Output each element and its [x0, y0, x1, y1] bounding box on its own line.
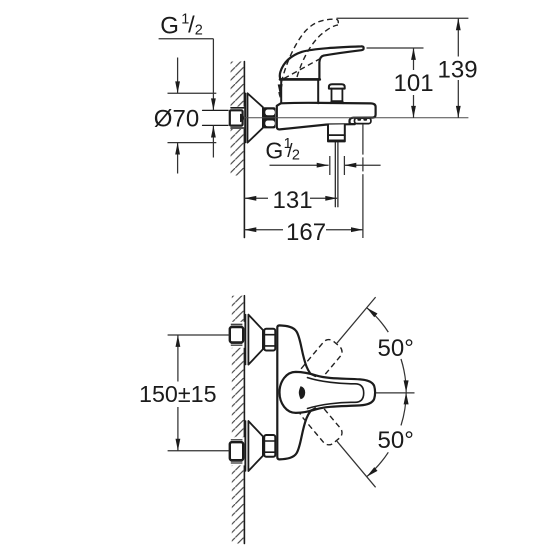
- cartridge skirt below lever: [281, 80, 318, 103]
- bottom union nut (front): [264, 435, 275, 457]
- svg-text:G: G: [265, 137, 283, 163]
- faucet body (front): [277, 325, 315, 459]
- union nut (top view): [263, 107, 275, 128]
- 150±15 dimension: [168, 334, 230, 336]
- wall surface line (bottom view): [243, 296, 245, 544]
- escutcheon (top view): [245, 93, 247, 142]
- centerline: [245, 117, 469, 119]
- svg-text:Ø70: Ø70: [154, 105, 199, 132]
- top union nut (front): [264, 329, 275, 351]
- rotation arrowhead: [278, 84, 283, 96]
- dashed ghost handle upper (rotated 50°): [297, 337, 345, 388]
- top wall nipple (front): [229, 322, 245, 348]
- svg-text:50°: 50°: [378, 427, 414, 454]
- wall hatching (bottom view): [232, 296, 245, 544]
- wall surface line (top view): [243, 62, 245, 238]
- bottom escutcheon (front): [245, 421, 247, 471]
- svg-text:167: 167: [286, 219, 326, 246]
- bottom wall nipple (front): [229, 437, 245, 465]
- lever handle (front): [280, 372, 376, 413]
- svg-text:G: G: [160, 13, 179, 40]
- lever inner contour: [308, 378, 364, 409]
- svg-text:50°: 50°: [378, 335, 414, 362]
- svg-text:139: 139: [438, 56, 478, 83]
- aerator under spout: [355, 118, 371, 124]
- svg-text:2: 2: [195, 22, 203, 38]
- supply pipe stub G1/2: [203, 109, 230, 111]
- faucet body (top view): [277, 103, 376, 130]
- shower hose thread pipe: [334, 141, 336, 206]
- top escutcheon (front): [245, 315, 247, 365]
- Ø70 dimension: [168, 92, 217, 94]
- parting ticks: [310, 374, 315, 377]
- 131 dimension: [244, 197, 268, 199]
- svg-text:131: 131: [273, 187, 313, 214]
- dashed ghost handle lower (rotated 50°): [297, 397, 345, 448]
- svg-text:101: 101: [394, 70, 434, 97]
- lever hub mark: [299, 386, 305, 399]
- wall hatching (top view): [231, 62, 245, 176]
- shower outlet fitting: [328, 124, 345, 141]
- dashed raised lever (ghost): [280, 19, 339, 91]
- diverter knob: [329, 84, 345, 88]
- 101 / 139 dimensions (right): [337, 17, 469, 19]
- svg-text:2: 2: [292, 147, 300, 163]
- angular 50° dimensions: [376, 392, 415, 394]
- svg-text:150±15: 150±15: [139, 381, 217, 407]
- 167 dimension: [362, 124, 364, 238]
- solid lever handle: [280, 46, 364, 79]
- wall nipple square (top view): [229, 107, 245, 129]
